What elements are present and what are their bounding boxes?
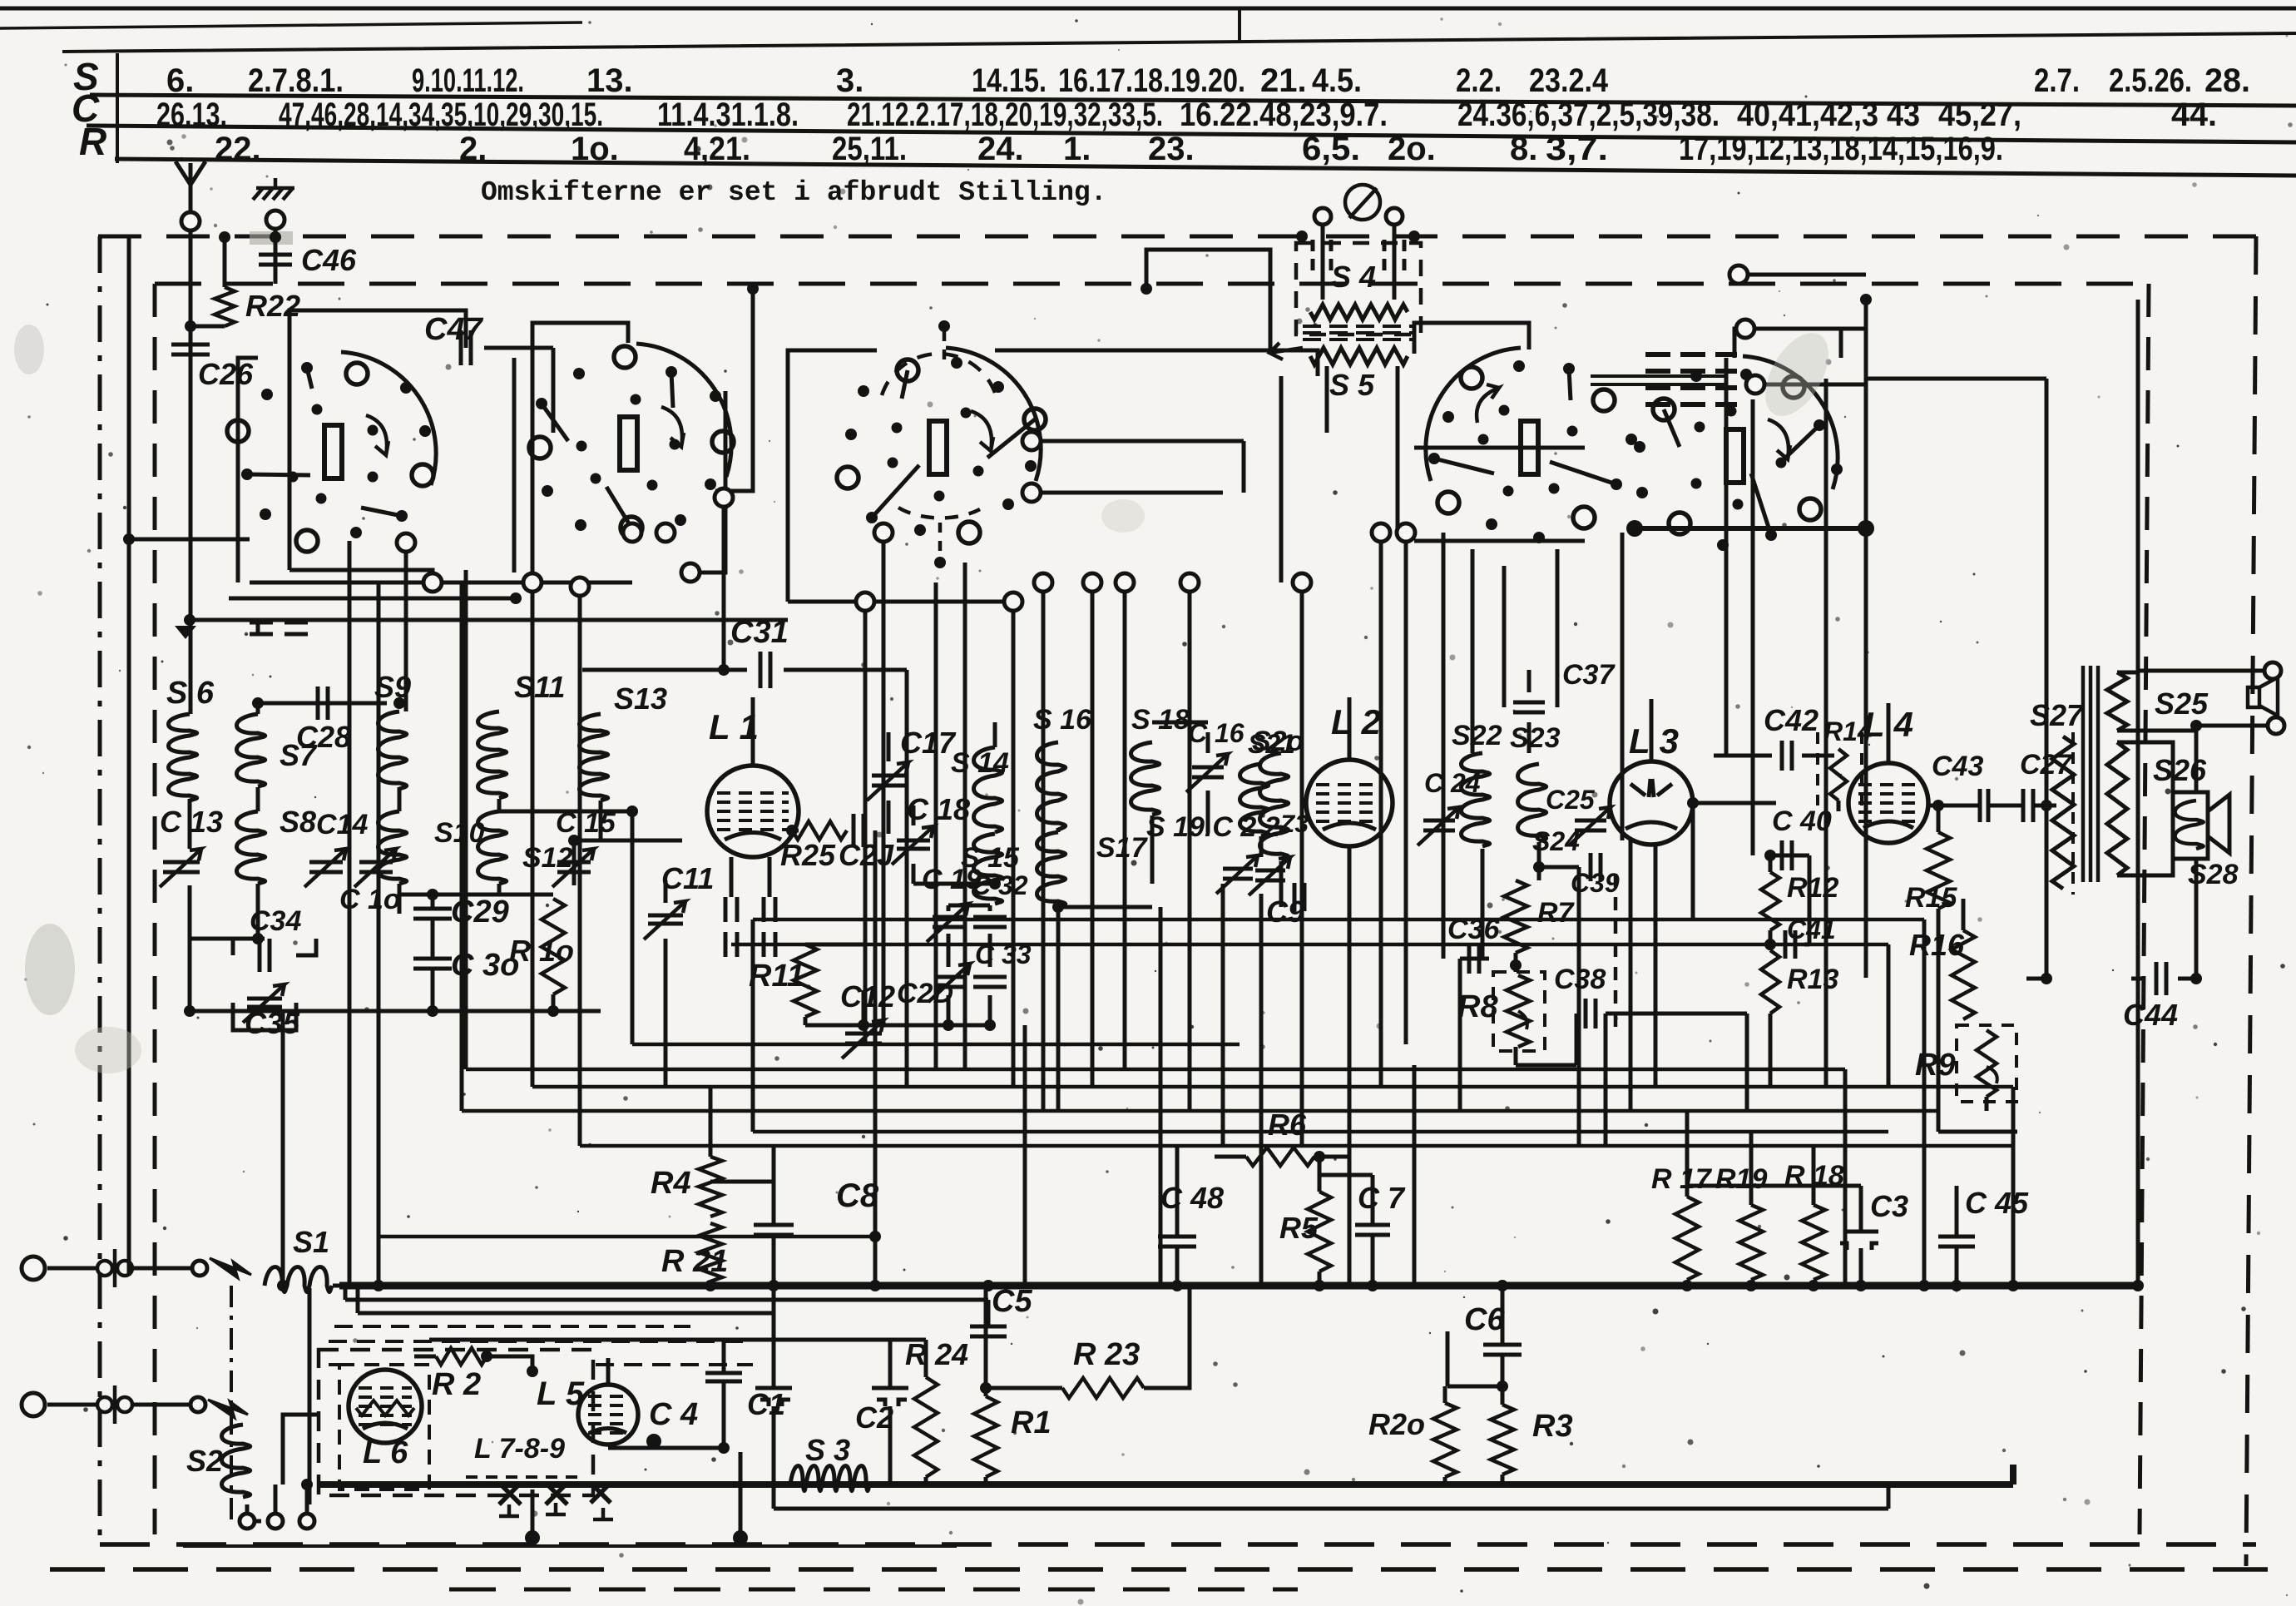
svg-text:9.10.11.12.: 9.10.11.12. <box>412 62 524 99</box>
wire <box>987 1300 991 1326</box>
wire <box>912 864 916 884</box>
wire <box>497 884 502 895</box>
resistor R19 <box>1739 1205 1763 1280</box>
variable capacitor C16 <box>1192 767 1224 777</box>
svg-text:16.22.48,23,9.7.: 16.22.48,23,9.7. <box>1180 97 1388 133</box>
dashed box L6 <box>339 1365 429 1490</box>
svg-text:R6: R6 <box>1268 1108 1307 1142</box>
wire <box>1962 899 1966 930</box>
svg-text:2.7.8.1.: 2.7.8.1. <box>248 62 344 99</box>
winding S26 <box>2107 742 2127 875</box>
wire <box>231 939 235 955</box>
wire <box>1575 1014 1579 1065</box>
wire <box>431 969 435 1011</box>
resistor R4 <box>699 1157 722 1217</box>
wire <box>599 801 603 840</box>
svg-text:S 3: S 3 <box>805 1433 850 1467</box>
svg-text:C11: C11 <box>661 861 714 895</box>
svg-text:40,41,42,3 43: 40,41,42,3 43 <box>1737 97 1920 133</box>
wire <box>862 990 866 1017</box>
junction <box>626 805 638 817</box>
capacitor C6 <box>1483 1345 1522 1355</box>
wire <box>497 799 502 811</box>
coil S2 <box>222 1425 250 1497</box>
coil S17 <box>1037 832 1066 907</box>
wire <box>1843 1069 1848 1286</box>
wire <box>887 801 891 834</box>
wire <box>1319 1173 1373 1177</box>
junction <box>510 592 522 604</box>
svg-text:25,11.: 25,11. <box>832 131 907 167</box>
svg-text:S 4: S 4 <box>1331 260 1376 294</box>
junction <box>2041 973 2052 984</box>
wire <box>1447 1385 1502 1389</box>
wire <box>1514 953 1518 972</box>
wire <box>1279 861 1284 884</box>
wire <box>947 905 951 911</box>
variable capacitor C35 <box>247 999 282 1007</box>
svg-text:R 23: R 23 <box>1073 1337 1140 1372</box>
wire <box>804 1017 808 1025</box>
smudge <box>14 325 44 374</box>
wire vertical <box>1621 533 1625 840</box>
junction <box>301 1479 313 1490</box>
wire <box>1527 670 1531 692</box>
junction <box>547 1005 559 1017</box>
wire <box>2131 977 2145 981</box>
wire <box>1887 944 1891 1087</box>
junction <box>733 1530 748 1545</box>
wire <box>487 1356 532 1371</box>
svg-text:2.7.: 2.7. <box>2034 62 2080 99</box>
resistor R6 <box>1246 1147 1314 1166</box>
mains terminal <box>22 1257 45 1280</box>
svg-text:S13: S13 <box>614 682 667 716</box>
junction <box>123 533 135 545</box>
svg-text:C12: C12 <box>840 979 895 1014</box>
wire <box>1501 1400 1505 1405</box>
wire <box>2045 805 2049 979</box>
wire <box>255 1519 268 1524</box>
coil S3 <box>790 1466 869 1491</box>
terminal <box>1729 265 1748 284</box>
wire <box>948 1024 990 1028</box>
terminal <box>571 577 589 596</box>
svg-text:C8: C8 <box>836 1177 879 1214</box>
wire <box>995 350 1318 376</box>
terminal <box>856 592 874 611</box>
junction <box>1367 1280 1378 1291</box>
wire vertical <box>1159 907 1163 1286</box>
wire vertical <box>1056 907 1061 1111</box>
svg-text:24.: 24. <box>977 131 1024 167</box>
wire <box>129 538 250 542</box>
wire <box>132 1266 193 1271</box>
svg-text:C25: C25 <box>1546 785 1596 815</box>
wire <box>47 1403 97 1407</box>
capacitor C44 <box>2156 962 2166 995</box>
wire <box>984 1286 988 1396</box>
svg-text:R 17: R 17 <box>1651 1163 1713 1195</box>
dashed box R8 <box>1493 972 1545 1051</box>
wire wafer2 frame <box>532 323 628 582</box>
junction <box>1510 959 1522 971</box>
wire vertical <box>963 563 967 1069</box>
wire vertical <box>1745 1014 1749 1111</box>
capacitor C48 <box>1158 1237 1196 1247</box>
wire grid lead <box>751 697 755 766</box>
wire vertical <box>1458 959 1462 1111</box>
coil S22 <box>1462 753 1490 846</box>
wire <box>1769 1014 1773 1087</box>
dashed core <box>2071 732 2075 895</box>
junction <box>1808 1280 1819 1291</box>
wire <box>1887 1485 1891 1509</box>
wire long bus <box>466 1068 1845 1072</box>
svg-text:C 48: C 48 <box>1160 1181 1224 1215</box>
svg-text:R11: R11 <box>749 959 804 994</box>
svg-text:R13: R13 <box>1787 964 1838 995</box>
tube L5 <box>578 1385 638 1445</box>
junction <box>1296 230 1308 242</box>
svg-text:R7: R7 <box>1537 897 1576 929</box>
terminal <box>1386 208 1403 225</box>
wire wafer1 frame <box>289 310 466 570</box>
antenna terminal <box>181 212 200 230</box>
svg-text:6,5.: 6,5. <box>1302 131 1360 167</box>
smudge <box>25 924 75 1015</box>
wire vertical <box>863 602 868 1044</box>
wire <box>710 1180 774 1184</box>
capacitor C9 <box>1294 883 1304 911</box>
wire <box>348 939 352 1286</box>
wire <box>1808 855 1812 944</box>
terminal <box>1004 592 1022 611</box>
svg-text:R12: R12 <box>1787 872 1838 904</box>
wire <box>1591 376 1726 384</box>
terminal <box>1372 523 1390 542</box>
junction <box>1858 520 1874 537</box>
wire <box>1175 1146 1180 1237</box>
junction <box>185 320 196 332</box>
coil S16 <box>1037 742 1066 830</box>
wire wafer3 frame <box>788 350 877 602</box>
resistor R2 <box>436 1348 487 1365</box>
junction <box>525 1530 540 1545</box>
inner dashed border right <box>2140 284 2149 1534</box>
wire <box>1318 1157 1322 1192</box>
svg-text:C28: C28 <box>296 720 351 754</box>
wire <box>924 1477 928 1485</box>
wire <box>1928 804 1978 808</box>
wire long bus <box>462 1109 1938 1113</box>
capacitor C45 <box>1938 1237 1975 1247</box>
rotary switch wafer 5 <box>1634 356 1843 551</box>
svg-text:28.: 28. <box>2204 62 2250 99</box>
junction <box>747 283 759 295</box>
wire <box>191 325 225 329</box>
wire <box>986 1386 1062 1390</box>
wire <box>431 919 435 959</box>
rotary switch wafer 3 <box>837 348 1046 543</box>
capacitor C1 electrolytic <box>755 1388 792 1406</box>
junction <box>1533 861 1545 873</box>
wire <box>414 1355 436 1359</box>
wire <box>399 893 553 897</box>
capacitor C47 <box>461 330 471 365</box>
smudge <box>1753 322 1842 426</box>
wire <box>552 348 556 433</box>
svg-text:8.: 8. <box>1510 131 1537 167</box>
wire <box>2011 1146 2016 1215</box>
junction <box>184 1005 195 1017</box>
junction <box>1764 850 1776 861</box>
terminal <box>874 523 893 542</box>
variable capacitor C11 <box>648 915 683 924</box>
svg-text:R22: R22 <box>245 289 300 323</box>
wire <box>2011 1087 2016 1286</box>
transformer S4 dashed box <box>1296 243 1421 335</box>
contact <box>240 1514 255 1529</box>
wire vertical <box>1691 803 1695 919</box>
resistor R8 <box>1507 975 1530 1047</box>
wire <box>1175 1247 1180 1286</box>
hatch block <box>1645 354 1737 404</box>
junction <box>1497 1380 1508 1392</box>
junction <box>858 1019 869 1031</box>
junction <box>869 1231 881 1242</box>
wire <box>256 787 260 811</box>
wire <box>256 703 260 714</box>
wire long bus <box>753 918 1924 922</box>
svg-text:C31: C31 <box>730 615 789 650</box>
svg-text:C37: C37 <box>1562 659 1616 691</box>
outer dashed border right <box>2246 236 2256 1566</box>
capacitor C7 <box>1355 1225 1390 1235</box>
link dash-dot <box>230 1286 233 1521</box>
wire <box>1866 377 2046 381</box>
variable capacitor C18 <box>897 840 930 849</box>
wire <box>188 885 192 1011</box>
wire <box>1527 722 1531 753</box>
junction <box>1171 1280 1183 1291</box>
wire <box>2195 859 2199 979</box>
junction <box>984 1019 996 1031</box>
dashed box R14 <box>1818 732 1862 805</box>
junction <box>1918 1280 1930 1291</box>
junction <box>277 1280 289 1291</box>
svg-text:45,27,: 45,27, <box>1938 97 2021 133</box>
svg-text:1.: 1. <box>1063 131 1091 167</box>
svg-text:3.: 3. <box>836 62 863 99</box>
dashed rotor arc wafer 3 top <box>882 354 995 395</box>
wire <box>1990 804 2021 808</box>
rotary switch wafer 2 <box>529 344 734 538</box>
main HT bus <box>339 1282 2138 1290</box>
switch contact <box>191 1397 205 1412</box>
wire <box>948 904 990 908</box>
smudge <box>75 1027 141 1073</box>
hatch marks <box>1313 240 1404 275</box>
wire vertical <box>1502 566 1507 707</box>
terminal <box>523 573 542 592</box>
wire <box>1938 1130 2017 1134</box>
junction <box>2190 720 2202 731</box>
svg-text:R9: R9 <box>1915 1048 1956 1083</box>
coil S1 choke <box>265 1267 332 1292</box>
svg-text:14.15.: 14.15. <box>972 62 1047 99</box>
dashed rotor arc wafer 3 bottom <box>898 508 980 518</box>
wire <box>772 1235 776 1286</box>
wire <box>1859 1186 1863 1232</box>
resistor R9 <box>1977 1030 1997 1097</box>
wire <box>664 880 668 903</box>
wire <box>1325 366 1329 433</box>
resistor R20 <box>1433 1403 1457 1477</box>
smudge <box>1101 499 1145 533</box>
coil S14 <box>974 747 1002 832</box>
wire vertical <box>1279 376 1284 582</box>
junction <box>568 835 580 846</box>
output transformer primary S27 <box>2052 736 2074 889</box>
wire <box>1371 1175 1375 1225</box>
variable capacitor C23 <box>1255 870 1285 880</box>
wire vertical <box>1091 582 1095 1087</box>
bottom dashed border 1 <box>100 1542 2256 1547</box>
wire vertical <box>1577 867 1581 1146</box>
svg-text:2.2.: 2.2. <box>1456 62 1502 99</box>
capacitor C5 <box>970 1326 1007 1336</box>
wire vertical <box>1471 549 1475 753</box>
wire <box>1058 905 1152 910</box>
wire <box>887 732 891 761</box>
resistor R10 <box>542 899 565 994</box>
border frame top line <box>0 7 2296 11</box>
wire <box>1804 943 1809 947</box>
svg-text:C 24: C 24 <box>1424 768 1481 798</box>
wire <box>772 1406 776 1485</box>
wire <box>1242 441 1246 493</box>
resistor R1 <box>974 1396 997 1477</box>
terminal <box>623 523 641 542</box>
svg-text:26.13.: 26.13. <box>156 97 227 133</box>
wire <box>751 919 755 1132</box>
tube L4 <box>1848 763 1928 843</box>
junction <box>1681 1280 1693 1291</box>
wire <box>1371 1235 1375 1286</box>
fuse <box>97 1261 112 1276</box>
junction <box>1932 800 1944 811</box>
terminal <box>1736 320 1754 338</box>
capacitor C37 <box>1513 702 1545 712</box>
resistor in L6 <box>356 1400 414 1415</box>
wire <box>1321 225 1325 300</box>
wire <box>1714 754 1772 758</box>
transformer S4 winding <box>1310 305 1408 320</box>
wire <box>1318 1271 1322 1286</box>
svg-text:R 24: R 24 <box>905 1337 968 1371</box>
capacitor C34 <box>260 939 270 972</box>
terminal <box>1022 483 1041 502</box>
svg-text:R8: R8 <box>1457 989 1498 1024</box>
wire vertical <box>1348 846 1352 1286</box>
wire vertical <box>1604 1014 1608 1146</box>
inner dashed border left <box>153 284 157 1534</box>
wire <box>1414 446 1585 450</box>
coil S13 <box>580 714 608 801</box>
svg-text:S 5: S 5 <box>1329 368 1375 402</box>
resistor R21 <box>699 1223 722 1281</box>
wire <box>460 582 464 1111</box>
capacitor C4 <box>705 1373 742 1381</box>
wire wafer2 to top border <box>715 289 753 491</box>
wire thick <box>1630 526 1866 531</box>
wire <box>1259 836 1264 857</box>
dial lamp <box>1345 185 1380 220</box>
capacitor C29 <box>413 909 452 919</box>
wire vertical <box>1556 549 1560 707</box>
wire <box>1606 1012 1747 1016</box>
wire <box>792 829 799 833</box>
wire <box>1215 1155 1246 1159</box>
resistor R13 <box>1761 950 1779 1014</box>
outer dash-dot border left <box>98 236 102 1546</box>
wire wafer2 frame left <box>512 358 517 573</box>
wire <box>1314 1155 1349 1159</box>
rotary switch wafer 4 <box>1426 348 1637 543</box>
resistor R23 <box>1062 1378 1144 1398</box>
wire <box>2045 379 2049 805</box>
capacitor C42 <box>1782 741 1792 771</box>
transformer S5 winding <box>1310 348 1408 364</box>
variable capacitor C19 <box>933 917 964 927</box>
wire long bus <box>753 1130 1888 1134</box>
coil S12 <box>478 811 507 884</box>
wire <box>431 895 435 909</box>
wire <box>190 620 258 632</box>
junction <box>1408 230 1420 242</box>
terminal <box>1180 573 1199 592</box>
switch S1 lever <box>210 1258 251 1278</box>
wire <box>730 857 734 897</box>
svg-text:22.: 22. <box>215 131 261 167</box>
bottom partial solid rule <box>183 1544 957 1548</box>
wire <box>377 1237 381 1286</box>
svg-text:2.: 2. <box>459 131 487 167</box>
wire <box>1769 855 1773 872</box>
junction <box>982 1280 994 1291</box>
coil S11 <box>478 711 507 798</box>
junction <box>869 1280 881 1291</box>
variable capacitor C20 <box>934 977 966 987</box>
svg-text:R19: R19 <box>1715 1163 1767 1195</box>
ruled line under C row <box>87 126 2296 142</box>
junction <box>427 889 438 900</box>
transformer core <box>1303 326 1414 340</box>
coil taps L7-8-9 <box>499 1483 611 1504</box>
resistor R22 <box>215 287 235 326</box>
resistor R14 <box>1830 749 1847 801</box>
capacitor C28 <box>318 687 328 720</box>
wire L3 plate <box>1693 801 1776 805</box>
svg-text:C46: C46 <box>301 243 357 277</box>
junction <box>219 231 230 243</box>
outer dashed border top <box>98 235 2256 239</box>
wire <box>1837 801 1841 811</box>
wire ground to border <box>274 229 278 284</box>
svg-text:S17: S17 <box>1096 832 1149 864</box>
tube L6 <box>349 1370 422 1443</box>
